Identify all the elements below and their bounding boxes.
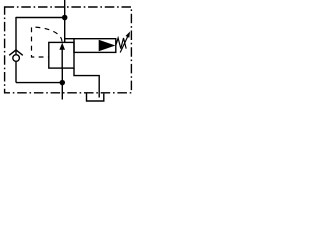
wire: left pipe below check valve (15, 62, 17, 83)
wire: stub from port line to pilot box top (65, 38, 74, 40)
main valve square (49, 42, 74, 68)
wire: bottom pipe to junction (16, 82, 62, 84)
flow arrow shaft in main valve (61, 48, 63, 68)
drain pipe from valve corner to tank (74, 68, 99, 97)
wire: port P vertical line top (64, 0, 66, 42)
junction dot top (62, 15, 68, 21)
pilot stage box (74, 39, 116, 53)
junction dot bottom (60, 80, 66, 86)
wire: port T vertical below valve (61, 68, 63, 99)
pilot line (dashed): arc from arrow tip, down left side, into valve left (32, 27, 63, 57)
check valve V1 seat (9, 50, 23, 55)
wire: left pipe down to check valve (15, 17, 17, 55)
pilot poppet triangle (99, 40, 116, 52)
tank symbol (87, 93, 104, 101)
check valve V1 ball (13, 55, 20, 62)
adjustment arrow shaft (120, 36, 128, 52)
spring (adjustable) (116, 38, 126, 49)
wire: horizontal pipe to left at top (16, 17, 65, 19)
flow arrow head (59, 43, 65, 50)
enclosure boundary (dash-dot) (5, 7, 132, 93)
adjustment arrow head (126, 32, 131, 38)
